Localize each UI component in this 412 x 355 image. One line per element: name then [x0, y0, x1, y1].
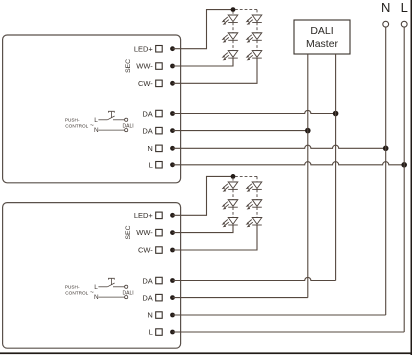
LED D10: [246, 182, 262, 192]
wire dashed string1 top link: [233, 10, 257, 51]
wire DALI bus left vertical (DALI Master to driver2 DA2): [307, 54, 309, 298]
wire DA2 driver1 to DALI bus: [173, 130, 308, 132]
svg-text:DA: DA: [142, 109, 152, 118]
terminal DA 1 (driver 2): [142, 276, 175, 285]
svg-text:DA: DA: [142, 276, 152, 285]
driver box 2: [3, 203, 181, 349]
terminal N (driver 2): [147, 311, 175, 320]
terminal WW- (driver 2): [136, 228, 175, 237]
svg-text:Master: Master: [306, 38, 339, 50]
svg-text:LED+: LED+: [134, 211, 154, 220]
node LED+ string 1 junction: [231, 7, 236, 12]
wire dashed string2 top link: [233, 176, 257, 217]
wire WW- driver1 to string1 left column: [173, 58, 234, 66]
LED D1: [222, 15, 238, 25]
mains terminal L: [401, 0, 408, 27]
wire L driver2 horizontal: [173, 331, 405, 333]
wire DALI bus right vertical (DALI Master to driver2 DA1): [335, 54, 337, 281]
svg-text:L: L: [401, 0, 408, 15]
wire N driver2 horizontal: [173, 314, 386, 316]
svg-text:L: L: [149, 160, 153, 169]
svg-text:SEC: SEC: [125, 225, 132, 239]
LED D4: [246, 15, 262, 25]
wire LED+ driver2 to LED string: [173, 176, 234, 215]
svg-text:WW-: WW-: [136, 228, 153, 237]
terminal DA 2 (driver 2): [142, 293, 175, 302]
wire LED+ driver1 to LED string: [173, 10, 234, 49]
push-button S1 (driver 1): [65, 111, 134, 134]
LED D12: [246, 218, 262, 228]
node N/bus junction: [383, 146, 389, 152]
terminal N (driver 1): [147, 144, 175, 153]
svg-text:DA: DA: [142, 126, 152, 135]
terminal CW- (driver 2): [138, 246, 175, 255]
svg-text:CW-: CW-: [138, 79, 153, 88]
svg-text:DALI: DALI: [310, 25, 333, 37]
wire L bus vertical: [403, 27, 405, 332]
node DA1/bus junction: [333, 111, 339, 117]
node L/bus junction: [401, 162, 407, 168]
svg-text:DA: DA: [142, 293, 152, 302]
svg-text:N: N: [381, 0, 390, 15]
LED D8: [222, 200, 238, 210]
LED D9: [222, 218, 238, 228]
svg-text:LED+: LED+: [134, 44, 154, 53]
node LED+ string 2 junction: [231, 174, 236, 179]
DALI Master U1: [294, 20, 350, 54]
wire DA1 driver1 to DALI bus (hop over left bus): [173, 110, 336, 113]
terminal CW- (driver 1): [138, 79, 175, 88]
LED D3: [222, 51, 238, 61]
wire CW- driver2 to string2 right column: [173, 225, 258, 250]
frame border right: [411, 0, 412, 355]
wire N driver1 to N bus (hops over DALI buses): [173, 145, 386, 148]
push-button S2 (driver 2): [65, 278, 134, 301]
wire CW- driver1 to string1 right column: [173, 58, 258, 83]
terminal LED+ (driver 1): [134, 44, 175, 53]
svg-text:N: N: [147, 311, 152, 320]
wire L driver1 to L bus (hops over DALI and N buses): [173, 162, 405, 165]
terminal DA 1 (driver 1): [142, 109, 175, 118]
terminal L (driver 1): [149, 160, 175, 169]
LED D6: [246, 51, 262, 61]
LED D7: [222, 182, 238, 192]
terminal LED+ (driver 2): [134, 211, 175, 220]
LED D5: [246, 33, 262, 43]
wire DA2 driver2 horizontal: [173, 297, 308, 299]
svg-text:N: N: [147, 144, 152, 153]
wire DA1 driver2 horizontal (hop over left bus): [173, 277, 336, 280]
svg-text:L: L: [149, 328, 153, 337]
wire N bus vertical: [385, 27, 387, 315]
wire WW- driver2 to string2 left column: [173, 225, 234, 233]
mains terminal N: [381, 0, 390, 27]
terminal L (driver 2): [149, 328, 175, 337]
svg-text:CW-: CW-: [138, 246, 153, 255]
LED D11: [246, 200, 262, 210]
terminal WW- (driver 1): [136, 62, 175, 71]
node DA2/bus junction: [305, 128, 311, 134]
svg-text:WW-: WW-: [136, 62, 153, 71]
frame border bottom: [0, 352, 412, 354]
LED D2: [222, 33, 238, 43]
terminal DA 2 (driver 1): [142, 126, 175, 135]
svg-text:SEC: SEC: [125, 59, 132, 73]
driver box 1: [3, 35, 181, 183]
